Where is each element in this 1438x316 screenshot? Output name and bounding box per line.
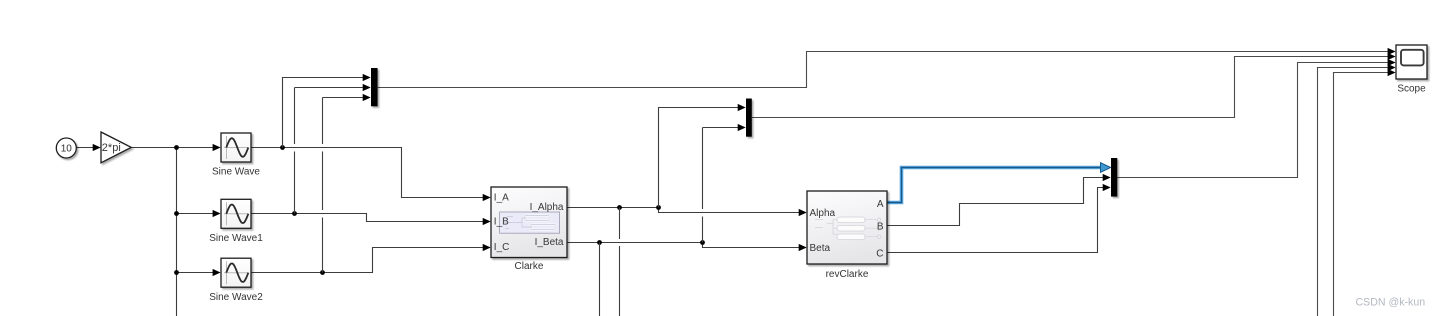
wire: constant 10 to gain xyxy=(77,147,94,149)
subsystem revClarke xyxy=(807,191,887,264)
mux Mux3 xyxy=(1111,158,1117,197)
node: junction on Sine Wave output xyxy=(280,145,285,150)
svg-text:10: 10 xyxy=(61,144,73,155)
wire: Clarke I_Beta output to revClarke Beta (jog down at junction) xyxy=(567,243,800,248)
wire: gain output to Sine Wave input xyxy=(131,147,213,149)
svg-text:I_C: I_C xyxy=(494,242,510,253)
wire: branch up from Sine Wave1 output to Mux1 input 2 (gap where it hops Sine Wave line) xyxy=(294,152,296,214)
svg-text:Sine Wave2: Sine Wave2 xyxy=(209,292,263,303)
svg-text:CSDN @k-kun: CSDN @k-kun xyxy=(1356,296,1426,308)
block Sine Wave2 xyxy=(221,258,251,287)
node: junction on I_Alpha line (up branch to Mux2) xyxy=(656,205,661,210)
svg-text:C: C xyxy=(876,248,883,259)
svg-text:I_A: I_A xyxy=(494,192,509,203)
svg-text:Sine Wave1: Sine Wave1 xyxy=(209,233,263,244)
svg-text:revClarke: revClarke xyxy=(826,269,869,280)
svg-text:I_Beta: I_Beta xyxy=(535,237,564,248)
wire: I_Alpha branch down off-screen (gap hopping I_Beta line) xyxy=(619,208,621,240)
wire: from off-screen bottom up to Scope input 5 xyxy=(1334,73,1389,316)
wire: from off-screen bottom up to Scope input 4 xyxy=(1318,68,1389,316)
svg-text:I_Alpha: I_Alpha xyxy=(530,202,564,213)
wire: revClarke output B to Mux3 input 2 (two steps up) xyxy=(887,178,1104,226)
node: junction on I_Alpha line (down branch) xyxy=(617,205,622,210)
svg-text:I_B: I_B xyxy=(494,216,509,227)
node: junction on Sine Wave1 output xyxy=(292,211,297,216)
svg-text:Clarke: Clarke xyxy=(515,261,544,272)
wire: I_Alpha branch up to Mux2 input 1 xyxy=(659,108,739,208)
wire: Mux1 output to Scope input 1 (right, up, long right) xyxy=(378,52,1389,88)
svg-text:B: B xyxy=(877,221,884,232)
wire: Sine Wave2 output to Clarke I_C xyxy=(251,248,484,273)
svg-text:A: A xyxy=(877,199,884,210)
block Sine Wave1 xyxy=(221,199,251,228)
scope Scope xyxy=(1396,45,1427,79)
wire: trunk branch to Sine Wave2 input xyxy=(177,272,214,274)
node: junction on I_Beta line (down branch) xyxy=(597,240,602,245)
gain block 2*pi (triangle) xyxy=(101,132,131,163)
wire: Clarke I_Alpha output to revClarke Alpha (with jog down at junction) xyxy=(567,208,800,213)
svg-text:Beta: Beta xyxy=(810,243,831,254)
wire: branch up from Sine Wave output to Mux1 input 1 xyxy=(283,78,364,148)
wire: vertical trunk from gain output junction down off-screen xyxy=(176,148,178,316)
wire: revClarke output C to Mux3 input 3 xyxy=(887,188,1104,253)
subsystem Clarke xyxy=(491,187,567,258)
node: junction on gain output xyxy=(174,145,179,150)
mux Mux1 xyxy=(371,68,378,106)
wire: revClarke output A to Mux3 input 1 (selected, blue) xyxy=(887,168,1103,203)
node: junction at Sine Wave2 branch xyxy=(174,270,179,275)
wire: trunk branch to Sine Wave1 input xyxy=(177,213,214,215)
wire: Mux2 output to Scope input 2 xyxy=(752,57,1389,118)
node: junction on Sine Wave2 output xyxy=(320,270,325,275)
svg-text:Scope: Scope xyxy=(1397,83,1426,94)
mux Mux2 xyxy=(746,99,752,137)
constant block "10" xyxy=(56,138,76,158)
svg-text:2*pi: 2*pi xyxy=(102,142,121,154)
wire: Sine Wave output to Clarke I_A (right, down, right) xyxy=(251,148,484,198)
wire: branch up from Sine Wave2 output to Mux1 input 3 (gaps at two crossings) xyxy=(322,218,324,273)
svg-text:Sine Wave: Sine Wave xyxy=(212,166,260,177)
svg-text:Alpha: Alpha xyxy=(810,208,836,219)
wire: I_Beta branch up to Mux2 input 2 (gap hopping Alpha feed line) xyxy=(702,217,704,243)
wire: I_Beta branch down off-screen xyxy=(599,243,601,316)
node: junction at Sine Wave1 branch xyxy=(174,211,179,216)
block Sine Wave xyxy=(221,133,251,162)
node: junction on I_Beta line (up branch to Mux2) xyxy=(700,240,705,245)
wire: Mux3 output to Scope input 3 xyxy=(1117,63,1388,178)
wire: Sine Wave1 output to Clarke I_B xyxy=(251,214,484,222)
